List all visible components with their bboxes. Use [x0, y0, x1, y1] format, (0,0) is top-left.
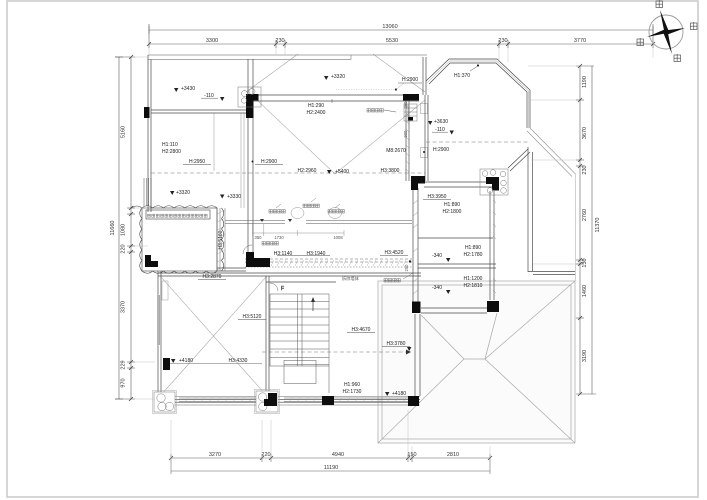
svg-text:250: 250 [403, 101, 408, 109]
svg-text:-340: -340 [432, 285, 442, 291]
svg-text:H3:3950: H3:3950 [428, 194, 447, 200]
svg-text:H3:5120: H3:5120 [243, 314, 262, 320]
svg-text:3270: 3270 [209, 452, 221, 458]
svg-text:900: 900 [403, 130, 408, 138]
svg-text:H1:890: H1:890 [465, 245, 481, 251]
svg-text:H3:3800: H3:3800 [381, 168, 400, 174]
svg-text:229: 229 [121, 360, 127, 369]
svg-text:230: 230 [498, 38, 507, 44]
svg-text:H3:3780: H3:3780 [387, 341, 406, 347]
svg-text:1730: 1730 [274, 235, 284, 240]
svg-text:2810: 2810 [447, 452, 459, 458]
svg-text:230: 230 [582, 165, 588, 174]
svg-text:H2:1800: H2:1800 [443, 209, 462, 215]
svg-text:H3:1140: H3:1140 [274, 251, 293, 257]
svg-text:13060: 13060 [382, 24, 397, 30]
svg-text:5160: 5160 [121, 126, 127, 138]
svg-text:1190: 1190 [582, 76, 588, 88]
svg-text:11190: 11190 [324, 465, 338, 471]
svg-text:3300: 3300 [206, 38, 218, 44]
svg-text:+5400: +5400 [335, 169, 349, 175]
svg-text:1008: 1008 [333, 235, 343, 240]
svg-text:250: 250 [404, 264, 409, 272]
svg-text:H:2900: H:2900 [402, 77, 418, 83]
svg-text:+3330: +3330 [227, 194, 241, 200]
svg-text:11370: 11370 [595, 218, 601, 233]
svg-text:3670: 3670 [582, 127, 588, 139]
svg-text:H2:2800: H2:2800 [162, 149, 181, 155]
svg-text:3370: 3370 [121, 301, 127, 313]
svg-text:1460: 1460 [582, 285, 588, 297]
svg-text:拆除墙体: 拆除墙体 [342, 275, 360, 282]
svg-text:H3:2870: H3:2870 [203, 274, 222, 280]
svg-text:220: 220 [261, 452, 270, 458]
svg-text:H:2950: H:2950 [189, 159, 205, 165]
svg-text:F: F [281, 286, 284, 292]
svg-text:4940: 4940 [332, 452, 344, 458]
svg-text:H2:1730: H2:1730 [343, 389, 362, 395]
svg-text:3190: 3190 [582, 350, 588, 362]
svg-text:5530: 5530 [386, 38, 398, 44]
svg-text:H1:960: H1:960 [344, 382, 360, 388]
svg-text:H:2900: H:2900 [261, 159, 277, 165]
svg-text:H1:290: H1:290 [308, 103, 324, 109]
svg-text:H3:4520: H3:4520 [385, 250, 404, 256]
svg-text:230: 230 [275, 38, 284, 44]
svg-text:H3:4330: H3:4330 [229, 358, 248, 364]
svg-text:+4180: +4180 [392, 391, 406, 397]
svg-text:+3320: +3320 [176, 190, 190, 196]
svg-text:130: 130 [582, 258, 588, 267]
svg-text:-340: -340 [432, 253, 442, 259]
svg-text:H2:2960: H2:2960 [298, 168, 317, 174]
svg-text:H3:5160: H3:5160 [218, 230, 224, 249]
svg-text:H1:1200: H1:1200 [464, 276, 483, 282]
svg-text:2760: 2760 [582, 209, 588, 221]
svg-text:1080: 1080 [121, 224, 127, 236]
svg-text:3770: 3770 [574, 38, 586, 44]
svg-text:H1:370: H1:370 [454, 73, 470, 79]
svg-text:H2:1780: H2:1780 [464, 252, 483, 258]
svg-text:+3430: +3430 [181, 86, 195, 92]
svg-text:H:2900: H:2900 [433, 147, 449, 153]
svg-text:+3630: +3630 [434, 119, 448, 125]
svg-text:H3:1940: H3:1940 [307, 251, 326, 257]
svg-text:M8:2670: M8:2670 [386, 148, 406, 154]
svg-text:220: 220 [121, 244, 127, 253]
svg-text:11660: 11660 [110, 221, 116, 236]
svg-text:H2:2400: H2:2400 [307, 110, 326, 116]
svg-text:350: 350 [255, 235, 263, 240]
svg-text:+4180: +4180 [179, 358, 193, 364]
svg-text:H1:890: H1:890 [444, 202, 460, 208]
svg-text:+3320: +3320 [331, 74, 345, 80]
svg-text:H3:4670: H3:4670 [352, 327, 371, 333]
svg-text:H1:110: H1:110 [162, 142, 178, 148]
svg-text:970: 970 [121, 378, 127, 387]
svg-text:H2:1810: H2:1810 [464, 283, 483, 289]
